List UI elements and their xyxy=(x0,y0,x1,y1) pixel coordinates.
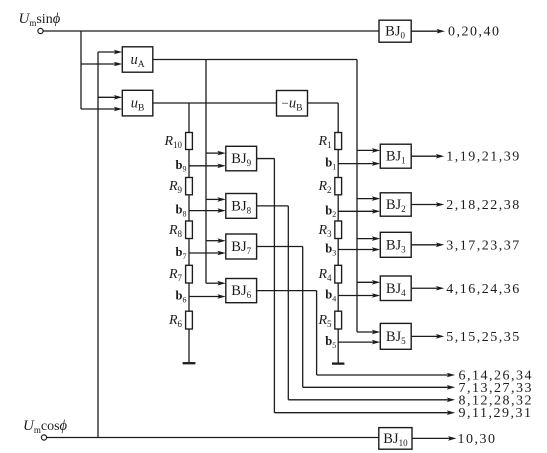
svg-text:10,30: 10,30 xyxy=(458,432,497,447)
svg-text:0,20,40: 0,20,40 xyxy=(448,25,501,40)
svg-text:6,14,26,34: 6,14,26,34 xyxy=(459,369,534,384)
svg-text:1,19,21,39: 1,19,21,39 xyxy=(446,150,521,165)
svg-text:9,11,29,31: 9,11,29,31 xyxy=(459,406,533,421)
svg-text:5,15,25,35: 5,15,25,35 xyxy=(446,330,521,345)
svg-text:Umsinϕ: Umsinϕ xyxy=(19,11,61,28)
svg-text:4,16,24,36: 4,16,24,36 xyxy=(446,282,521,297)
svg-text:Umcosϕ: Umcosϕ xyxy=(23,418,68,435)
svg-text:3,17,23,37: 3,17,23,37 xyxy=(446,238,521,253)
svg-text:2,18,22,38: 2,18,22,38 xyxy=(446,198,521,213)
